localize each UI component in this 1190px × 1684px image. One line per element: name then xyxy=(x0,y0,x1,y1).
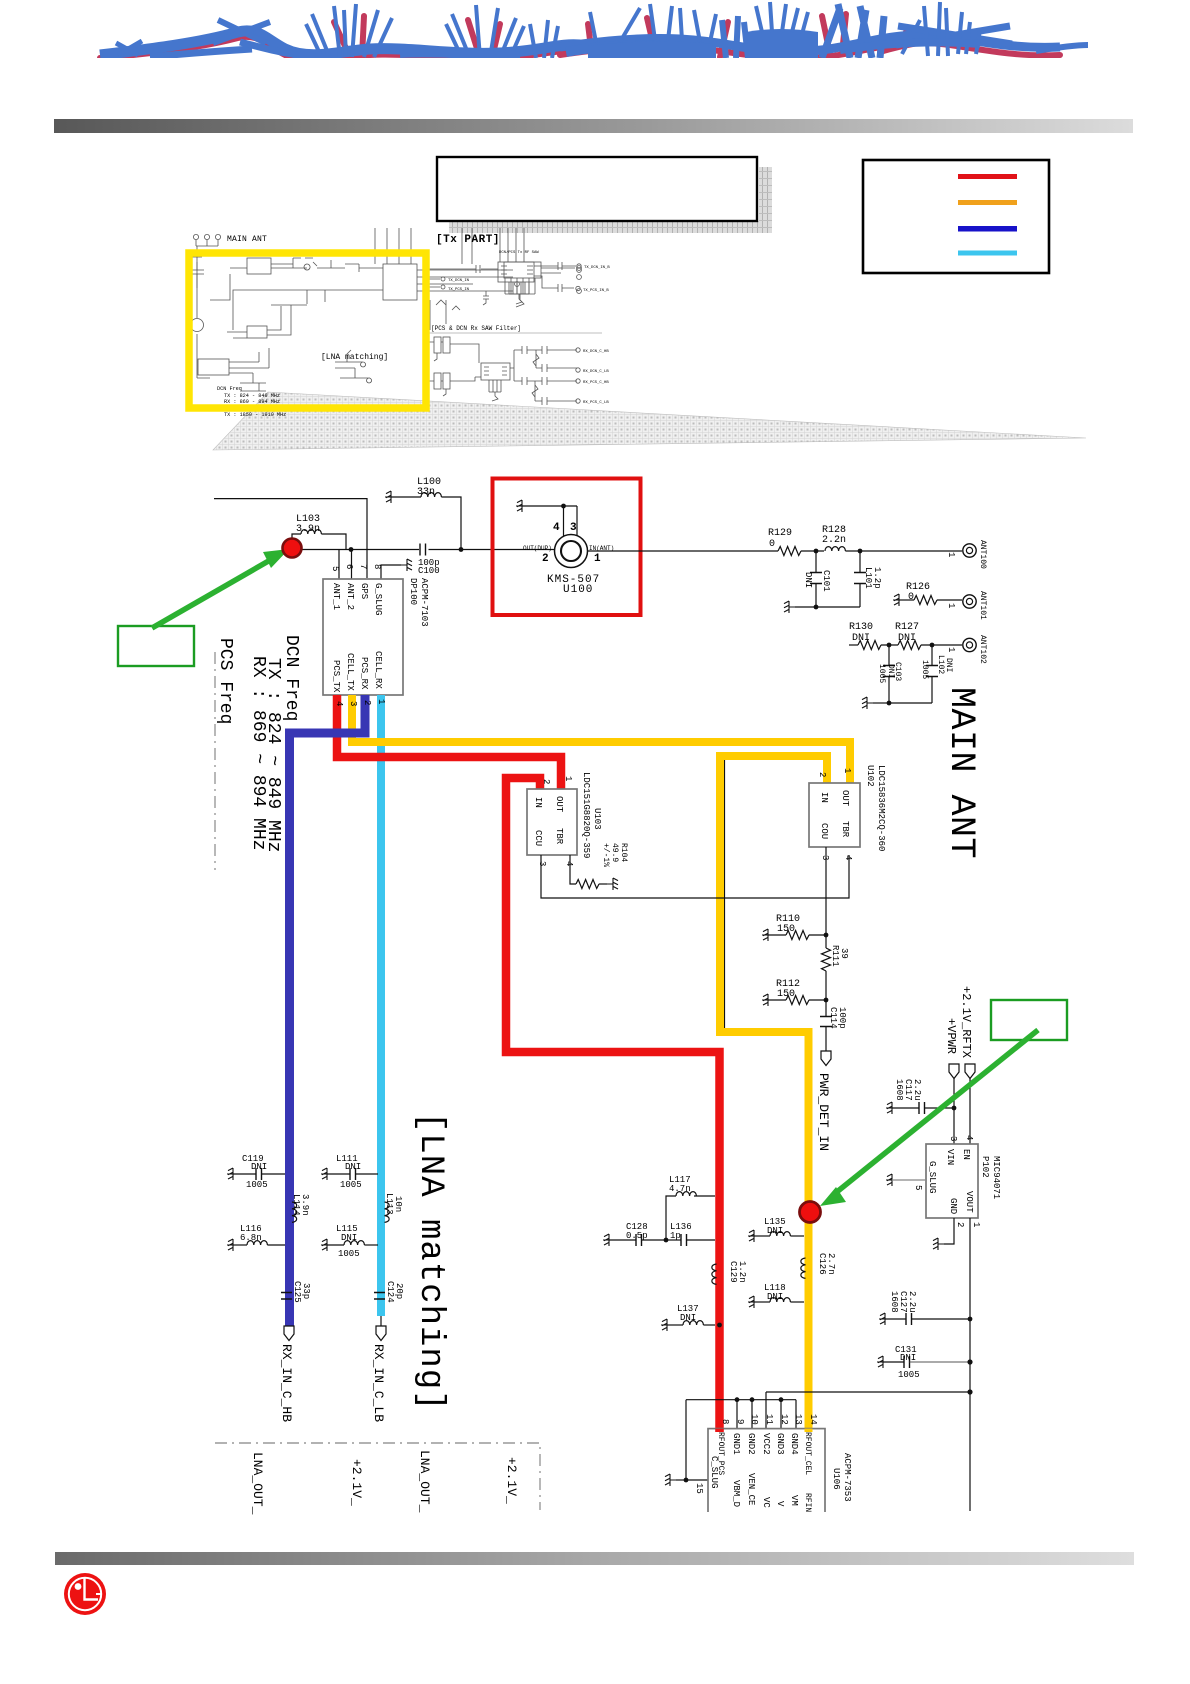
capacitor L136 xyxy=(666,1222,715,1246)
ground C103/L102 xyxy=(862,697,889,709)
wire flags to P102 xyxy=(954,1078,970,1144)
inductor C126 on yellow xyxy=(801,1253,836,1278)
connector ANT100 xyxy=(946,540,987,569)
svg-text:RX_PCS_C_HB: RX_PCS_C_HB xyxy=(583,381,609,385)
wire red U103 to U106 route xyxy=(506,778,720,1431)
svg-text:LDC15836M2CQ-360: LDC15836M2CQ-360 xyxy=(876,765,886,851)
svg-text:VC: VC xyxy=(761,1497,771,1508)
svg-text:2: 2 xyxy=(542,553,549,565)
svg-text:1: 1 xyxy=(946,647,956,652)
svg-text:VIN: VIN xyxy=(945,1149,955,1165)
svg-text:DP100: DP100 xyxy=(408,578,418,605)
white clip below schematic xyxy=(600,1512,1190,1552)
svg-text:4: 4 xyxy=(553,522,560,534)
svg-text:[PCS & DCN Rx SAW Filter]: [PCS & DCN Rx SAW Filter] xyxy=(431,325,521,332)
junction dot C127 xyxy=(968,1317,973,1322)
svg-text:MIC94071: MIC94071 xyxy=(991,1156,1001,1199)
svg-text:MAIN ANT: MAIN ANT xyxy=(941,687,981,859)
resistor R110 xyxy=(762,914,826,941)
junction dot bus12 xyxy=(779,1397,784,1402)
svg-text:GND4: GND4 xyxy=(789,1433,799,1455)
svg-text:CELL_TX: CELL_TX xyxy=(345,653,355,691)
capacitor C124 on cyan xyxy=(374,1281,404,1303)
mini texts xyxy=(217,234,610,418)
wire red PCS_TX route xyxy=(337,695,561,791)
svg-text:4.7n: 4.7n xyxy=(669,1184,691,1194)
junction dot L137 on red xyxy=(717,1323,722,1328)
svg-text:1: 1 xyxy=(946,552,956,557)
svg-text:+2.1V_RFTX: +2.1V_RFTX xyxy=(959,986,973,1058)
DP100 bottom pin numbers xyxy=(334,699,386,706)
red node 1 xyxy=(283,539,302,558)
svg-text:R104: R104 xyxy=(619,843,628,862)
net flag +VPWR xyxy=(949,1064,959,1079)
circulator U100 KMS-507 xyxy=(516,500,614,596)
legend cyan line xyxy=(958,251,1017,256)
wire yellow U102 to U106 route xyxy=(720,756,827,1431)
regulator P102 block xyxy=(913,1135,1001,1218)
red node 2 xyxy=(800,1202,821,1223)
net flag RX_IN_C_HB xyxy=(279,1326,294,1422)
svg-text:TX : 1850 - 1910 MHz: TX : 1850 - 1910 MHz xyxy=(224,412,286,418)
svg-text:TBR: TBR xyxy=(554,828,564,845)
svg-text:0: 0 xyxy=(908,592,914,603)
wire P102 VOUT down xyxy=(969,1218,971,1511)
resistor R111 vertical xyxy=(822,935,850,1000)
saw filter U103 block xyxy=(527,772,602,866)
svg-text:2.2n: 2.2n xyxy=(822,535,846,546)
svg-text:L102: L102 xyxy=(936,655,945,674)
svg-text:OUT: OUT xyxy=(840,790,850,807)
svg-text:ACPM-7353: ACPM-7353 xyxy=(842,1453,852,1502)
wire R128 to ANT100 xyxy=(845,550,962,552)
svg-text:GPS: GPS xyxy=(359,583,369,599)
svg-text:DNI: DNI xyxy=(341,1233,357,1243)
svg-text:[LNA matching]: [LNA matching] xyxy=(321,353,388,362)
svg-text:13: 13 xyxy=(793,1414,803,1425)
svg-text:C114: C114 xyxy=(828,1007,838,1029)
svg-text:IN: IN xyxy=(819,792,829,803)
svg-text:20p: 20p xyxy=(394,1283,404,1299)
svg-text:LNA_OUT_: LNA_OUT_ xyxy=(250,1452,265,1515)
mini Tx labels xyxy=(448,279,470,292)
connector ANT101 xyxy=(946,591,987,620)
svg-text:DNI: DNI xyxy=(803,572,813,588)
svg-text:VEN_CE: VEN_CE xyxy=(746,1473,756,1505)
svg-text:11: 11 xyxy=(764,1414,774,1425)
svg-text:TX_PCS_IN_B: TX_PCS_IN_B xyxy=(583,289,609,293)
inductor L118 xyxy=(748,1283,804,1308)
svg-text:+VPWR: +VPWR xyxy=(944,1018,958,1054)
svg-text:R129: R129 xyxy=(768,528,792,539)
capacitor L102 xyxy=(889,645,953,703)
junction dot C103 xyxy=(887,643,892,648)
svg-text:DCN Freq: DCN Freq xyxy=(281,635,301,721)
junction dot R112 xyxy=(824,998,829,1003)
svg-text:1005: 1005 xyxy=(877,664,886,683)
svg-text:RX : 869 ~ 894 MHz: RX : 869 ~ 894 MHz xyxy=(248,656,268,850)
svg-text:2: 2 xyxy=(817,772,827,777)
svg-text:8: 8 xyxy=(720,1419,730,1424)
svg-text:14: 14 xyxy=(808,1414,818,1425)
svg-text:1608: 1608 xyxy=(894,1079,904,1101)
wire U102 pin3 down xyxy=(825,847,827,935)
svg-text:COU: COU xyxy=(819,823,829,839)
junction dot L101 xyxy=(858,549,863,554)
wire stub yellow into U106 xyxy=(805,1429,813,1432)
junction dot gnd row xyxy=(814,605,819,610)
svg-text:VOUT: VOUT xyxy=(964,1191,974,1213)
svg-text:RX_DCN_C_HB: RX_DCN_C_HB xyxy=(583,350,609,354)
capacitor L101 xyxy=(816,551,882,607)
wire under yellow route xyxy=(724,758,726,1032)
svg-text:DNI: DNI xyxy=(680,1313,696,1323)
dash-dot bottom boundary xyxy=(215,1443,540,1510)
wire VCC2 rail xyxy=(766,1392,970,1428)
wire R129 to R128 xyxy=(801,550,824,552)
junction dot L117/C128 xyxy=(664,1238,669,1243)
green callout box 1 xyxy=(118,626,194,666)
svg-text:GND2: GND2 xyxy=(746,1433,756,1455)
svg-text:1: 1 xyxy=(563,776,573,781)
inductor L113 on cyan xyxy=(384,1193,403,1222)
svg-text:VCC2: VCC2 xyxy=(761,1433,771,1455)
svg-text:1: 1 xyxy=(971,1222,981,1227)
svg-text:3: 3 xyxy=(820,855,830,860)
svg-text:100p: 100p xyxy=(837,1007,847,1029)
svg-text:6.8n: 6.8n xyxy=(240,1233,262,1243)
junction dot R110 xyxy=(824,933,829,938)
junction dot L100/main xyxy=(459,547,464,552)
capacitor C127 xyxy=(879,1291,970,1325)
legend red line xyxy=(958,174,1017,179)
zoom wedge xyxy=(213,392,1086,450)
svg-text:DNI: DNI xyxy=(898,633,916,644)
wire yellow CELL_TX route xyxy=(352,695,850,786)
inductor L137 xyxy=(661,1304,715,1331)
svg-text:DNI: DNI xyxy=(886,664,895,678)
svg-text:1005: 1005 xyxy=(340,1180,362,1190)
svg-text:PCS_RX: PCS_RX xyxy=(359,657,369,690)
green callout box 2 xyxy=(991,1000,1067,1040)
svg-text:GND3: GND3 xyxy=(775,1433,785,1455)
svg-text:DNI: DNI xyxy=(251,1162,267,1172)
svg-text:33n: 33n xyxy=(417,487,435,498)
svg-text:VM: VM xyxy=(789,1495,799,1506)
svg-text:RFOUT_CEL: RFOUT_CEL xyxy=(803,1432,812,1475)
svg-text:1608: 1608 xyxy=(889,1291,899,1313)
svg-text:3.9n: 3.9n xyxy=(296,524,320,535)
title white box xyxy=(449,221,772,233)
svg-text:U100: U100 xyxy=(563,584,593,596)
svg-text:C101: C101 xyxy=(821,570,831,592)
junction dot bus9 xyxy=(735,1397,740,1402)
capacitor C119 xyxy=(227,1154,285,1190)
svg-text:4: 4 xyxy=(564,861,574,866)
net flag RX_IN_C_LB xyxy=(371,1316,386,1422)
ground P102 pin2 xyxy=(933,1218,965,1250)
svg-text:2.7n: 2.7n xyxy=(826,1253,836,1275)
green arrow 1 xyxy=(152,549,289,628)
svg-text:C129: C129 xyxy=(728,1261,738,1283)
svg-text:U102: U102 xyxy=(865,765,875,787)
svg-text:7: 7 xyxy=(358,564,368,569)
svg-text:R127: R127 xyxy=(895,622,919,633)
svg-text:2.2u: 2.2u xyxy=(907,1291,917,1313)
svg-text:C100: C100 xyxy=(418,566,440,576)
svg-text:G_SLUG: G_SLUG xyxy=(373,583,383,615)
svg-text:1: 1 xyxy=(594,553,601,565)
top gradient bar xyxy=(0,0,1,1)
resistor R126 xyxy=(893,582,962,606)
svg-text:ANT102: ANT102 xyxy=(978,635,987,664)
capacitor L111 xyxy=(321,1154,378,1190)
svg-text:+2.1V_: +2.1V_ xyxy=(504,1457,519,1504)
svg-text:1.2n: 1.2n xyxy=(737,1261,747,1283)
svg-text:L101: L101 xyxy=(863,567,873,589)
svg-text:TX_PCS_IN: TX_PCS_IN xyxy=(448,288,470,292)
svg-text:MAIN ANT: MAIN ANT xyxy=(227,235,267,244)
svg-text:2: 2 xyxy=(955,1222,965,1227)
svg-text:OUT: OUT xyxy=(554,796,564,813)
svg-text:3: 3 xyxy=(570,522,577,534)
svg-text:[LNA matching]: [LNA matching] xyxy=(411,1112,449,1412)
svg-text:C126: C126 xyxy=(817,1253,827,1275)
svg-text:15: 15 xyxy=(694,1483,704,1494)
svg-text:R111: R111 xyxy=(830,945,840,967)
svg-text:4: 4 xyxy=(843,855,853,860)
svg-text:U103: U103 xyxy=(592,808,602,830)
resistor R104 xyxy=(570,843,628,890)
svg-text:1.2p: 1.2p xyxy=(872,567,882,589)
svg-text:3.9n: 3.9n xyxy=(300,1194,310,1216)
svg-text:+/-1%: +/-1% xyxy=(601,843,610,867)
svg-text:RX_IN_C_LB: RX_IN_C_LB xyxy=(371,1344,386,1422)
svg-text:DNI: DNI xyxy=(767,1226,783,1236)
svg-text:9: 9 xyxy=(735,1419,745,1424)
mini Tx SAW right part xyxy=(429,228,581,305)
inductor L135 xyxy=(748,1217,804,1242)
junction dot pin15 xyxy=(684,1478,689,1483)
svg-text:PWR_DET_IN: PWR_DET_IN xyxy=(816,1073,831,1151)
svg-text:12: 12 xyxy=(779,1414,789,1425)
mini Rx SAW center xyxy=(425,333,602,401)
ground C101 xyxy=(784,601,816,613)
svg-text:C124: C124 xyxy=(385,1281,395,1303)
svg-text:1: 1 xyxy=(376,699,386,704)
connector ANT102 xyxy=(946,635,987,664)
svg-text:2: 2 xyxy=(362,700,372,705)
footer gradient bar xyxy=(0,0,1,1)
inductor L103 xyxy=(292,514,346,549)
svg-text:5: 5 xyxy=(913,1185,923,1190)
svg-text:ANT100: ANT100 xyxy=(978,540,987,569)
capacitor C125 on blue xyxy=(281,1281,311,1303)
svg-text:C125: C125 xyxy=(292,1281,302,1303)
svg-text:LDC151G8820Q-359: LDC151G8820Q-359 xyxy=(581,772,591,858)
svg-text:1005: 1005 xyxy=(920,660,929,679)
resistor R112 xyxy=(762,979,826,1006)
svg-text:8: 8 xyxy=(372,564,382,569)
svg-text:ACPM-7103: ACPM-7103 xyxy=(419,578,429,627)
junction dot VCC2 xyxy=(967,1389,972,1394)
red highlight box xyxy=(493,479,641,616)
svg-text:2.2u: 2.2u xyxy=(912,1079,922,1101)
svg-text:L114: L114 xyxy=(291,1194,301,1216)
svg-text:RX_PCS_C_LB: RX_PCS_C_LB xyxy=(583,401,609,405)
capacitor C101 xyxy=(803,551,831,607)
junction dot L102 top xyxy=(930,643,935,648)
wire stub red into U106 xyxy=(715,1429,724,1432)
node junction dot A xyxy=(349,547,354,552)
svg-text:+2.1V_: +2.1V_ xyxy=(349,1459,364,1506)
svg-text:ANT_1: ANT_1 xyxy=(331,583,341,610)
svg-text:1005: 1005 xyxy=(246,1180,268,1190)
svg-text:VBM_D: VBM_D xyxy=(731,1480,741,1507)
inductor L116 xyxy=(227,1224,285,1251)
svg-text:2: 2 xyxy=(541,779,551,784)
svg-text:39: 39 xyxy=(839,948,849,959)
svg-text:150: 150 xyxy=(777,924,795,935)
svg-text:5: 5 xyxy=(330,566,340,571)
svg-text:PCS_TX: PCS_TX xyxy=(331,660,341,693)
svg-text:1: 1 xyxy=(946,603,956,608)
legend box xyxy=(863,160,1049,273)
LG logo xyxy=(64,1573,106,1615)
resistor R127 xyxy=(895,622,962,650)
svg-text:CCU: CCU xyxy=(533,830,543,846)
svg-text:DCN/PCS Tx RF SAW: DCN/PCS Tx RF SAW xyxy=(499,250,539,255)
junction dot C101 xyxy=(814,549,819,554)
yellow highlight box xyxy=(189,253,426,408)
inductor L115 xyxy=(321,1224,378,1259)
svg-text:RX_IN_C_HB: RX_IN_C_HB xyxy=(279,1344,294,1422)
svg-text:ANT_2: ANT_2 xyxy=(345,583,355,610)
svg-text:IN: IN xyxy=(533,797,543,808)
svg-text:150: 150 xyxy=(777,989,795,1000)
svg-text:33p: 33p xyxy=(301,1283,311,1299)
wire U103 pin3 to U102 pin4 xyxy=(541,855,849,898)
svg-text:G_SLUG: G_SLUG xyxy=(927,1161,937,1193)
ground U106 pin15 xyxy=(665,1474,676,1486)
svg-text:1005: 1005 xyxy=(898,1370,920,1380)
svg-text:DNI: DNI xyxy=(900,1353,916,1363)
svg-text:GND1: GND1 xyxy=(731,1433,741,1455)
svg-text:DNI: DNI xyxy=(944,658,953,672)
capacitor C114 xyxy=(820,1000,847,1051)
mini Rx output connectors xyxy=(576,348,580,403)
svg-text:TX_DCN_IN_B: TX_DCN_IN_B xyxy=(584,266,610,270)
legend blue line xyxy=(958,226,1017,232)
inductor L117 xyxy=(666,1175,715,1240)
junction dot C117 xyxy=(952,1106,957,1111)
saw filter U102 block xyxy=(809,765,886,860)
svg-text:DNI: DNI xyxy=(345,1162,361,1172)
inductor C129 on red xyxy=(712,1261,747,1284)
svg-text:1005: 1005 xyxy=(338,1249,360,1259)
svg-text:TBR: TBR xyxy=(840,821,850,838)
svg-text:1p: 1p xyxy=(670,1231,681,1241)
svg-text:0.5p: 0.5p xyxy=(626,1231,648,1241)
svg-text:1: 1 xyxy=(842,768,852,773)
capacitor C100 xyxy=(418,544,440,577)
resistor R130 xyxy=(849,622,898,650)
capacitor C103 xyxy=(877,645,902,703)
legend orange line xyxy=(958,200,1017,205)
svg-text:6: 6 xyxy=(344,564,354,569)
svg-text:[Tx PART]: [Tx PART] xyxy=(436,234,500,246)
green arrow 2 xyxy=(820,1030,1038,1206)
svg-text:4: 4 xyxy=(964,1135,974,1140)
junction dot gnd row2 xyxy=(887,701,892,706)
svg-text:49.9: 49.9 xyxy=(610,843,619,862)
wire top-left to GPS pin7 xyxy=(214,499,367,578)
junction dot bus10 xyxy=(750,1397,755,1402)
svg-text:OUT(DUP): OUT(DUP) xyxy=(523,545,552,552)
resistor R129 xyxy=(768,528,801,556)
svg-text:EN: EN xyxy=(961,1149,971,1160)
svg-text:3: 3 xyxy=(537,861,547,866)
svg-text:0: 0 xyxy=(769,539,775,550)
inductor R128 xyxy=(822,525,846,551)
svg-text:3: 3 xyxy=(948,1136,958,1141)
wire cyan PCS CELL_RX route xyxy=(377,695,385,1316)
svg-text:RX_DCN_C_LB: RX_DCN_C_LB xyxy=(583,370,609,374)
junction dot C131 xyxy=(967,1359,972,1364)
dash-dot left boundary xyxy=(214,652,216,870)
svg-text:DNI: DNI xyxy=(852,633,870,644)
svg-text:DNI: DNI xyxy=(767,1292,783,1302)
svg-text:GND: GND xyxy=(948,1198,958,1214)
capacitor C128 xyxy=(603,1222,666,1246)
inductor L114 on blue xyxy=(291,1194,310,1222)
net flag +2.1V_RFTX xyxy=(965,1064,975,1079)
svg-text:V: V xyxy=(775,1501,785,1507)
svg-text:10n: 10n xyxy=(393,1196,403,1212)
svg-text:3: 3 xyxy=(348,701,358,706)
svg-text:TX_DCN_IN: TX_DCN_IN xyxy=(448,279,470,283)
capacitor C117 xyxy=(886,1079,954,1114)
svg-text:DCN Freq: DCN Freq xyxy=(217,386,242,392)
net flag PWR_DET_IN xyxy=(816,1051,831,1151)
svg-text:ANT101: ANT101 xyxy=(978,591,987,620)
wire blue PCS_RX route xyxy=(290,695,366,1326)
svg-text:CELL_RX: CELL_RX xyxy=(373,651,383,689)
wire main line node to circulator xyxy=(300,549,554,551)
svg-text:P102: P102 xyxy=(980,1156,990,1178)
mini schematic xyxy=(190,228,581,405)
inductor L100 xyxy=(385,477,461,549)
svg-text:10: 10 xyxy=(749,1414,759,1425)
wire circulator to R129 xyxy=(588,550,779,552)
svg-text:U106: U106 xyxy=(831,1468,841,1490)
svg-text:C_SLUG: C_SLUG xyxy=(709,1456,719,1488)
ground P102 pin5 xyxy=(886,1174,926,1186)
capacitor C131 xyxy=(877,1345,970,1380)
duplexer DP100 block xyxy=(323,549,429,695)
svg-text:LNA_OUT_: LNA_OUT_ xyxy=(417,1450,432,1513)
power amp U106 block xyxy=(694,1414,852,1529)
svg-text:R130: R130 xyxy=(849,622,873,633)
svg-text:4: 4 xyxy=(334,701,344,706)
wire gnd bus U106 xyxy=(686,1400,796,1480)
svg-text:L113: L113 xyxy=(384,1193,394,1215)
svg-text:PCS Freq: PCS Freq xyxy=(215,638,235,724)
